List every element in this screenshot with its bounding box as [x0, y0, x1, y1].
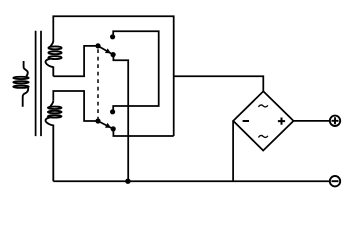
transformer T1 bottom secondary winding: [46, 100, 62, 181]
switch S1 pivot junction: [95, 43, 100, 48]
switch S2 pivot junction: [95, 118, 100, 123]
bridge minus polarity mark: [243, 120, 249, 122]
switch S2 blade: [98, 121, 113, 129]
wire: bridge DC plus output to positive terminal: [294, 120, 330, 122]
wire: bottom bus to negative terminal: [53, 180, 330, 182]
switch S1 blade: [98, 46, 113, 55]
wire: branch from right vertical to bridge AC input: [174, 76, 264, 91]
wire: top secondary bottom lead to switch S1 pivot: [53, 46, 98, 76]
switch S2 blade arrowhead: [105, 123, 111, 128]
bridge AC mark (top tilde): [259, 105, 268, 107]
switch S2 lower contact: [111, 126, 116, 131]
wire: switch S1 upper contact to switch S2 upper contact: [113, 31, 159, 112]
switch S2 upper contact: [110, 109, 115, 114]
wire: switch S1 lower contact down to bottom bus junction: [113, 55, 128, 182]
wire: top rail from top secondary to right vertical: [53, 16, 173, 136]
switch S1 lower contact: [111, 52, 116, 57]
transformer T1 primary winding: [13, 61, 28, 107]
wire: switch S2 lower contact to right vertical: [113, 129, 173, 136]
bridge plus polarity mark: [278, 118, 285, 125]
bridge AC mark (bottom tilde): [259, 135, 268, 137]
switch S1 blade arrowhead: [105, 48, 111, 53]
switch S1 upper contact: [110, 34, 115, 39]
bridge rectifier diamond: [233, 91, 293, 150]
transformer T1 core: [36, 31, 41, 136]
negative output terminal: [330, 176, 340, 186]
positive output terminal: [330, 116, 340, 126]
wire: bottom secondary top lead to switch S2 pivot: [53, 91, 98, 121]
ganged switch linkage (dashed): [97, 49, 99, 118]
junction node at bottom bus: [125, 179, 130, 184]
transformer T1 top secondary winding: [46, 41, 62, 77]
wire: bridge DC minus output down to bottom bus: [232, 121, 234, 181]
